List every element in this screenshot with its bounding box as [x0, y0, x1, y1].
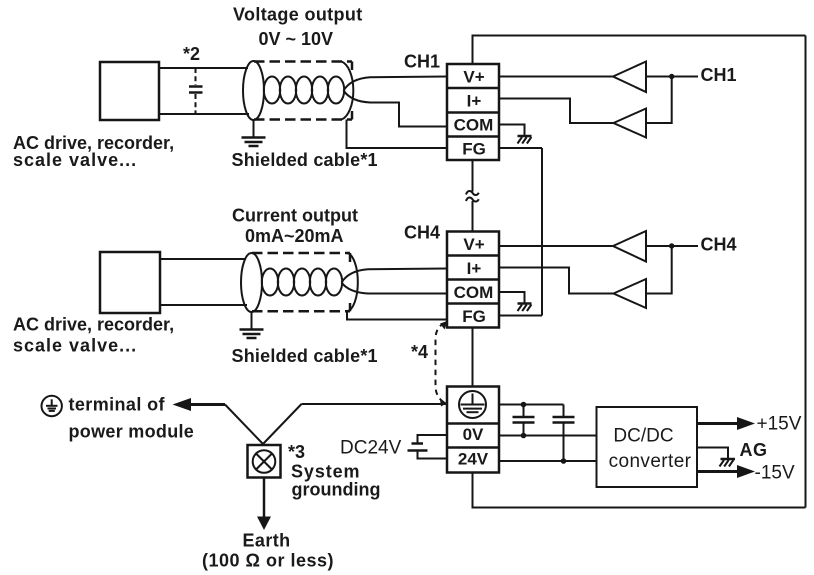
- device box (AC drive) channel 1: [100, 62, 159, 120]
- svg-text:AC drive, recorder,: AC drive, recorder,: [13, 315, 174, 335]
- svg-text:scale valve...: scale valve...: [13, 150, 137, 170]
- wire V+ CH1 to buffer: [499, 76, 613, 78]
- wire Y right diagonal: [263, 404, 302, 445]
- svg-text:Voltage output: Voltage output: [233, 4, 363, 24]
- svg-text:DC/DC: DC/DC: [613, 426, 673, 447]
- node cap1 bottom on 0V line: [521, 433, 527, 439]
- AG chassis ground: [720, 459, 736, 467]
- wire V+ CH4 to buffer: [499, 245, 613, 247]
- wire cable2 bottom conductor to COM: [342, 283, 448, 294]
- svg-text:*3: *3: [288, 442, 305, 462]
- arrowhead *4 top: [440, 321, 448, 330]
- module right border: [805, 36, 807, 508]
- svg-text:+15V: +15V: [757, 414, 802, 435]
- -15V output arrow: [697, 470, 740, 473]
- svg-text:I+: I+: [467, 259, 482, 278]
- svg-text:0V ~ 10V: 0V ~ 10V: [259, 29, 334, 49]
- AG wire: [697, 448, 728, 459]
- wire earth terminal right: [499, 404, 564, 406]
- shielded cable 2: right end arc: [347, 253, 358, 311]
- svg-text:0V: 0V: [463, 425, 484, 444]
- shielded cable 2: left end ellipse: [241, 253, 262, 312]
- svg-text:terminal of: terminal of: [69, 395, 166, 415]
- svg-text:(100 Ω or less): (100 Ω or less): [202, 551, 334, 571]
- system grounding circle-X: [253, 450, 276, 473]
- wire FG CH4 to FG bus: [499, 315, 542, 317]
- wire FG CH1 to FG bus: [499, 147, 542, 149]
- system grounding electrode box: [248, 445, 281, 478]
- wire cable2 top conductor to I+: [342, 269, 448, 283]
- node CH4 junction: [669, 243, 674, 248]
- svg-text:0mA~20mA: 0mA~20mA: [245, 226, 344, 246]
- node CH1 junction: [669, 74, 674, 79]
- shielded cable 1: twisted pair loops: [264, 77, 280, 104]
- op-amp buffer CH1 voltage: [613, 62, 646, 93]
- wire FG CH4 down to ground terminal block: [472, 328, 474, 387]
- device box (AC drive) channel 4: [100, 252, 160, 313]
- wire I+ CH4 to current buffer: [499, 268, 614, 294]
- power terminal block (FG/0V/24V): [447, 387, 499, 473]
- op-amp buffer CH1 current: [614, 109, 647, 138]
- wire device1 bottom conductor: [159, 113, 249, 115]
- wire earth terminal to Y-split: [302, 403, 448, 405]
- svg-text:CH4: CH4: [404, 223, 440, 243]
- svg-text:Current output: Current output: [232, 205, 358, 225]
- svg-text:Earth: Earth: [243, 531, 291, 551]
- svg-text:FG: FG: [462, 140, 486, 159]
- shielded cable 2: shield dashed box: [252, 252, 350, 255]
- chassis ground at COM CH1: [518, 136, 532, 144]
- svg-text:24V: 24V: [458, 450, 489, 469]
- svg-text:*4: *4: [411, 342, 428, 362]
- capacitor *2 plates: [189, 85, 203, 88]
- wire buffer4v output to node CH4: [646, 245, 672, 247]
- module top rail: [473, 36, 806, 65]
- svg-text:CH1: CH1: [701, 65, 737, 85]
- op-amp buffer CH4 voltage: [613, 231, 646, 262]
- wire node CH4 down to current buffer: [646, 246, 672, 294]
- wire node CH4 to label: [672, 245, 698, 247]
- shielded cable 1: left end ellipse: [243, 61, 264, 120]
- op-amp buffer CH4 current: [614, 279, 647, 308]
- DC/DC converter box: [597, 407, 698, 487]
- wire cable2 shield to FG: [347, 311, 447, 319]
- wire 0V to converter: [499, 435, 596, 437]
- svg-text:AG: AG: [740, 440, 768, 460]
- svg-text:grounding: grounding: [292, 480, 381, 500]
- svg-text:FG: FG: [462, 307, 486, 326]
- wire down to CH4 block: [472, 201, 474, 232]
- wire device2 top conductor: [160, 258, 246, 260]
- +15V output arrow: [697, 422, 740, 425]
- dashed *4 connector FG to ground terminal: [436, 323, 445, 403]
- svg-text:DC24V: DC24V: [340, 437, 402, 458]
- svg-text:CH4: CH4: [701, 235, 737, 255]
- module bottom border: [473, 473, 806, 508]
- shielded cable 2: twisted pair loops: [262, 269, 278, 296]
- wire FG CH1 down (upper): [472, 160, 474, 192]
- node cap1 top: [521, 402, 527, 408]
- wire node CH1 down to current buffer: [646, 77, 672, 124]
- node cap2 bottom on 24V line: [561, 458, 567, 464]
- protective earth symbol small (power module): [42, 396, 62, 416]
- svg-text:System: System: [291, 462, 360, 482]
- svg-text:-15V: -15V: [755, 463, 795, 484]
- svg-text:V+: V+: [463, 68, 484, 87]
- terminal block CH4: [447, 232, 499, 328]
- ground symbol cable 1: [242, 120, 266, 146]
- svg-text:V+: V+: [463, 235, 484, 254]
- svg-text:Shielded cable*1: Shielded cable*1: [232, 346, 378, 366]
- wire 24V to converter: [499, 460, 596, 462]
- wire cable1 shield to FG: [347, 120, 448, 149]
- wire I+ CH1 to current buffer: [499, 99, 614, 124]
- capacitor *2 dashed leads: [195, 68, 197, 85]
- svg-text:converter: converter: [609, 451, 692, 472]
- svg-text:CH1: CH1: [404, 52, 440, 72]
- svg-text:*2: *2: [183, 44, 200, 64]
- wire battery to 24V: [418, 452, 448, 459]
- svg-text:COM: COM: [454, 116, 494, 135]
- arrowhead *4 bottom: [440, 400, 447, 407]
- break squiggle: [466, 191, 479, 195]
- shielded cable 1: right end arc: [342, 62, 354, 120]
- wire cable1 bottom conductor to COM: [344, 91, 448, 127]
- svg-text:I+: I+: [467, 92, 482, 111]
- svg-text:power module: power module: [69, 422, 195, 442]
- svg-text:Shielded cable*1: Shielded cable*1: [232, 150, 378, 170]
- wire node CH1 to label: [672, 76, 698, 78]
- shielded cable 1: shield dashed box: [254, 60, 352, 63]
- wire device2 bottom conductor: [160, 304, 247, 306]
- capacitor C1: [513, 405, 535, 436]
- thick arrow to terminal of power module: [184, 403, 225, 406]
- wire device1 top conductor: [159, 67, 248, 69]
- protective earth terminal symbol: [459, 391, 486, 418]
- wire buffer1v output to node CH1: [646, 76, 672, 78]
- svg-text:COM: COM: [454, 283, 494, 302]
- battery DC24V plates: [412, 442, 424, 445]
- wire COM CH4 to analog ground: [499, 292, 525, 303]
- svg-text:scale valve...: scale valve...: [13, 336, 137, 356]
- capacitor C2: [553, 405, 575, 462]
- terminal block CH1: [447, 64, 499, 160]
- wire Y left diagonal: [225, 405, 264, 445]
- wire 0V to battery: [418, 435, 448, 443]
- wire cable1 top conductor to V+: [344, 77, 448, 91]
- FG bus vertical: [541, 148, 543, 316]
- ground symbol cable 2: [240, 312, 264, 338]
- chassis ground at COM CH4: [518, 304, 532, 312]
- earth arrow: [263, 478, 266, 519]
- wire COM CH1 to analog ground: [499, 125, 525, 136]
